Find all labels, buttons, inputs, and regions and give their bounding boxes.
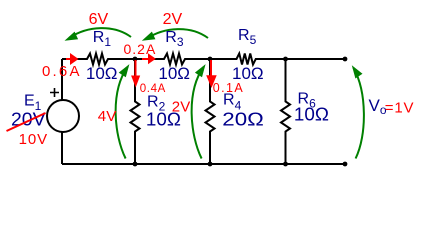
svg-text:2V: 2V — [163, 11, 183, 28]
svg-text:0.2A: 0.2A — [124, 41, 157, 57]
svg-text:2V: 2V — [172, 99, 191, 116]
svg-text:R3: R3 — [165, 29, 184, 49]
svg-text:10Ω: 10Ω — [294, 105, 329, 125]
svg-text:=1V: =1V — [385, 99, 415, 116]
svg-text:0.6A: 0.6A — [42, 63, 82, 80]
svg-text:10Ω: 10Ω — [158, 64, 190, 83]
svg-text:R1: R1 — [93, 29, 112, 49]
svg-text:10Ω: 10Ω — [86, 64, 118, 83]
svg-text:6V: 6V — [89, 11, 109, 28]
svg-text:0.1A: 0.1A — [213, 81, 244, 95]
svg-text:4V: 4V — [98, 108, 117, 125]
svg-text:10V: 10V — [19, 131, 48, 148]
svg-text:0.4A: 0.4A — [140, 83, 166, 95]
svg-text:R5: R5 — [238, 27, 257, 47]
svg-text:20Ω: 20Ω — [222, 110, 263, 130]
